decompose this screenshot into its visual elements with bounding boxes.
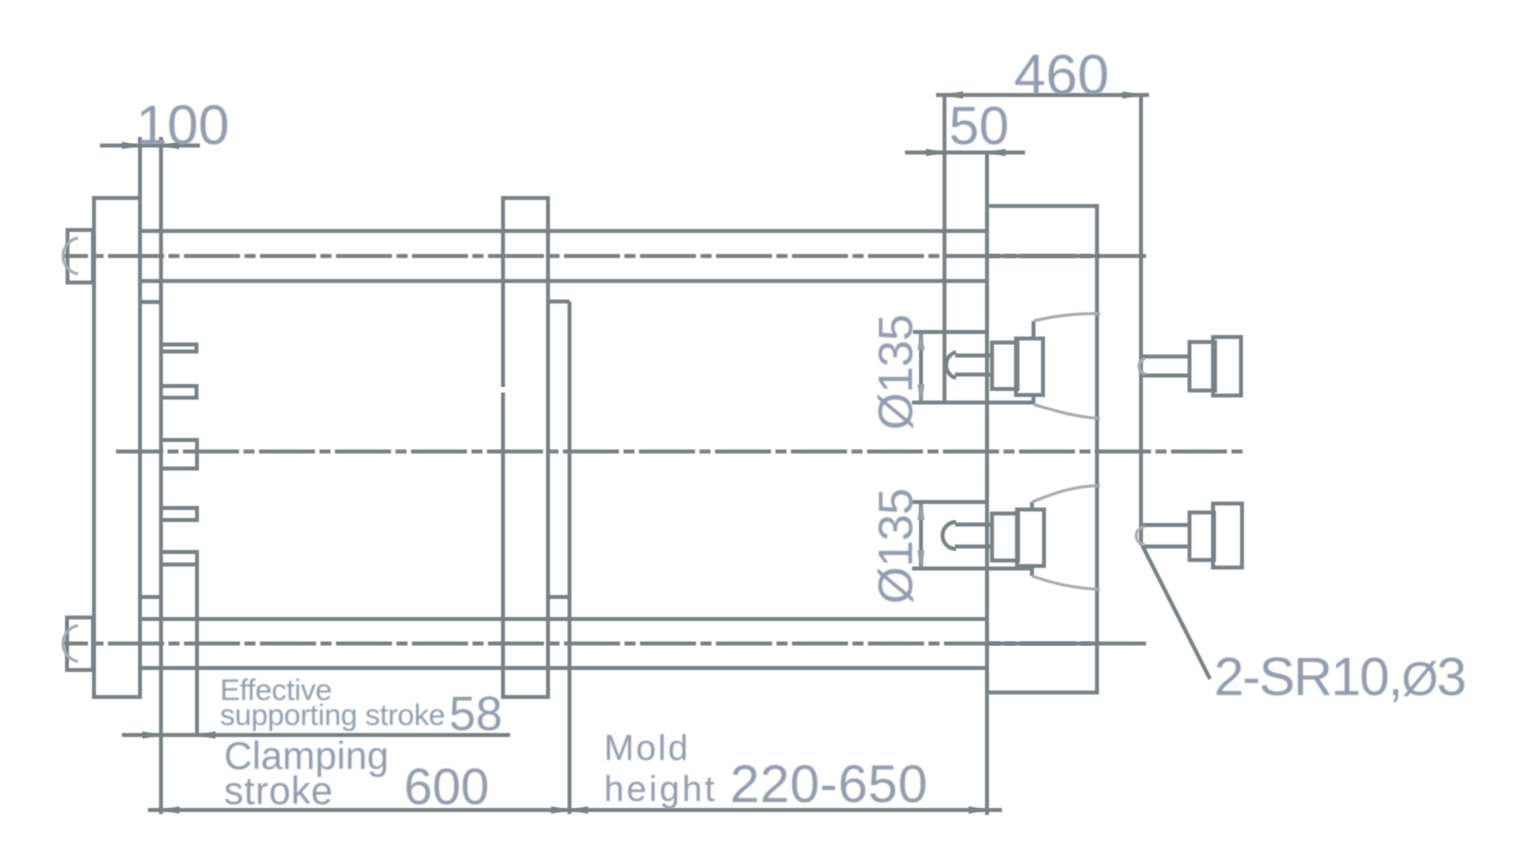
dia135 bottom extension lines <box>912 502 1032 569</box>
nozzle top: small block <box>992 343 1018 390</box>
arrow 58 right <box>197 731 216 738</box>
left platen <box>94 198 140 697</box>
svg-text:Ø135: Ø135 <box>870 315 923 430</box>
dimension 50 line <box>905 151 1025 155</box>
nozzle bottom: big block <box>1017 510 1044 567</box>
nozzle top cone lower curve <box>1034 405 1101 419</box>
svg-text:50: 50 <box>949 96 1009 156</box>
dia135 top extension lines <box>912 332 1034 403</box>
fixed platen left edge extension (50 dim and mold height dim) <box>985 153 989 816</box>
arrowheads <box>122 91 1141 813</box>
tooth T2 <box>161 386 197 398</box>
arrow 100 left <box>122 142 140 149</box>
nozzle bottom cone lower curve <box>1032 576 1100 590</box>
tie bar 1 top line <box>142 229 987 233</box>
center line tie bar 2 <box>63 642 1146 646</box>
nozzle bottom cone upper curve <box>1032 486 1100 503</box>
arrow 600 left <box>161 806 180 813</box>
tie bar 2 bottom line <box>140 666 987 670</box>
svg-text:58: 58 <box>449 688 502 741</box>
svg-text:supporting stroke: supporting stroke <box>220 699 445 732</box>
ejector knob top: middle block <box>1190 342 1216 391</box>
fixed platen <box>987 206 1097 693</box>
arrow 58 left <box>143 731 162 738</box>
extension line x140 above platen <box>138 137 142 198</box>
tie bar 2 nut arc <box>63 626 78 662</box>
tie bar 1 nut arc <box>63 238 78 274</box>
dimension 460 line <box>936 93 1149 97</box>
nozzle bottom: stem lines <box>955 525 992 547</box>
nozzle top cone upper curve <box>1034 314 1101 322</box>
arrow mold height right <box>969 806 988 813</box>
support plate right edge lower <box>195 564 199 737</box>
svg-text:600: 600 <box>404 758 489 815</box>
ejector knob bottom: stem <box>1142 525 1190 547</box>
machine center line <box>116 450 1243 454</box>
rung upper between platen and support plate <box>140 300 161 304</box>
svg-text:Mold: Mold <box>604 727 690 768</box>
tie bar 2 left end nut <box>67 618 93 671</box>
nozzle top: stem lines <box>955 356 992 375</box>
dimension 100 line <box>100 144 200 148</box>
ejector knob bottom: end block <box>1213 504 1242 568</box>
nozzle bottom: spherical cap <box>942 522 956 549</box>
leader line to 2-SR10 label <box>1142 545 1210 679</box>
moving platen <box>503 198 548 697</box>
nozzle bottom: cone narrow edge <box>1030 502 1034 576</box>
arrow 50 left <box>926 149 945 156</box>
dia135 bottom dimension line <box>919 502 923 569</box>
svg-text:460: 460 <box>1014 43 1109 107</box>
dimension 58 line <box>122 733 510 737</box>
ejector knob top: end block <box>1213 337 1241 396</box>
arrow mold height left <box>570 806 589 813</box>
nozzle top: cone narrow edge <box>1032 321 1036 405</box>
svg-text:Ø135: Ø135 <box>870 489 923 604</box>
tie bar 1 left end nut <box>68 230 94 283</box>
svg-text:height: height <box>604 768 717 809</box>
arrow 50 right <box>987 149 1006 156</box>
pocket step bottom <box>548 595 570 599</box>
right end plate <box>1139 95 1143 545</box>
nozzle top: big block <box>1016 339 1043 396</box>
tie bar 1 bottom line <box>140 279 987 283</box>
nozzle top: spherical cap <box>946 352 956 378</box>
knob top sphere hint <box>1139 359 1145 375</box>
nozzle bottom: small block <box>992 514 1018 561</box>
tooth T1 <box>161 345 197 352</box>
dimension bottom line (600 and mold height) <box>148 808 1002 812</box>
ejector knob bottom: middle block <box>1190 513 1215 561</box>
arrow 460 left <box>945 91 964 98</box>
arrow 600 right <box>551 806 570 813</box>
dia135 arrowheads (light) <box>917 332 924 569</box>
ejector knob top: stem <box>1142 357 1190 376</box>
tooth T5 <box>161 552 197 565</box>
tie bar 2 top line <box>142 617 987 621</box>
svg-text:220-650: 220-650 <box>730 755 928 814</box>
tooth T3 <box>161 440 197 469</box>
extension vertical x944.5 for 460/50 dims <box>943 97 947 403</box>
svg-text:stroke: stroke <box>224 770 333 813</box>
svg-text:2-SR10,Ø3: 2-SR10,Ø3 <box>1214 647 1465 707</box>
support plate left edge / clamping stroke extension <box>159 137 163 814</box>
arrow 460 right <box>1123 91 1142 98</box>
svg-text:100: 100 <box>136 93 229 156</box>
gap in moving platen left edge line <box>500 387 506 393</box>
dia135 top dimension line <box>919 332 923 403</box>
pocket step top <box>548 300 570 304</box>
tooth T4 <box>161 508 197 520</box>
rung lower between platen and support plate <box>140 595 161 599</box>
pocket right edge / mold height left extension <box>568 302 572 815</box>
knob bottom sphere hint <box>1136 527 1145 545</box>
arrow 100 right <box>161 142 179 149</box>
solid centerline segments inside fixed platen <box>988 256 1100 644</box>
light curves <box>63 238 1145 662</box>
center line tie bar 1 <box>63 256 1243 644</box>
